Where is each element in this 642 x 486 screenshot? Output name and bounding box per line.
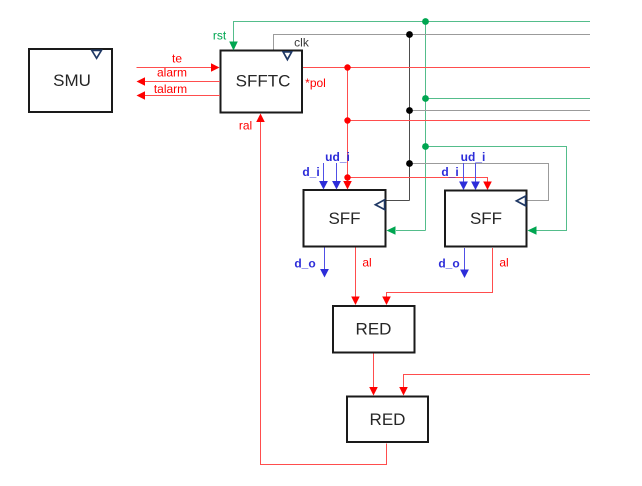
svg-text:SMU: SMU [53, 71, 91, 90]
wire d_i stub into SFF left [323, 163, 325, 182]
svg-text:d_o: d_o [438, 257, 459, 271]
wire ud_i stub into SFF right [475, 163, 477, 182]
block SMU [29, 49, 112, 112]
wire red stub row 2 [348, 120, 591, 122]
arrowhead into RED lower left [369, 387, 378, 396]
wire d_o stub out of SFF left [324, 248, 326, 270]
junction clk lower [406, 160, 413, 167]
arrowhead into RED lower right [399, 387, 408, 396]
wire clk: gray entry into SFFTC top [274, 35, 591, 50]
svg-text:alarm: alarm [157, 66, 187, 80]
junction green top [422, 18, 429, 25]
wire talarm: red out of SFFTC left [145, 95, 221, 97]
arrowhead ud_i right [471, 182, 480, 191]
junction red lower [344, 174, 350, 180]
junction clk top [406, 31, 413, 38]
wire al from SFF left into RED upper [355, 248, 357, 298]
svg-text:SFF: SFF [328, 209, 360, 228]
wire ral feedback from RED lower to SFFTC bottom [261, 121, 387, 465]
junction green middle [422, 95, 429, 102]
svg-text:talarm: talarm [154, 82, 187, 96]
arrowhead d_o right [460, 270, 469, 279]
clock-edge triangle on SFFTC [283, 52, 292, 60]
svg-text:*pol: *pol [305, 76, 326, 90]
arrowhead d_i left [319, 181, 328, 190]
wire green stub row 2 [426, 98, 591, 100]
wire rst vertical trunk (green) [425, 22, 427, 231]
arrowhead alarm [137, 77, 146, 86]
wire from right side into RED lower [404, 375, 591, 389]
wire *pol: red out of SFFTC right [303, 67, 590, 69]
arrowhead red into SFF left top [343, 181, 352, 190]
wire red branch to SFF right top [348, 178, 488, 183]
junction red top [344, 64, 350, 70]
wire green loop to right SFF [426, 147, 567, 231]
svg-text:RED: RED [370, 410, 406, 429]
arrowhead al right into RED [382, 297, 391, 306]
svg-text:ud_i: ud_i [461, 150, 486, 164]
clock-edge triangle on SFF left [375, 200, 384, 210]
arrowhead ral into SFFTC bottom [256, 114, 265, 123]
wire gray loop to right SFF clock pin [410, 164, 549, 201]
junction clk middle [406, 107, 413, 114]
arrowhead green into SFF left [387, 226, 396, 235]
svg-text:clk: clk [294, 36, 310, 50]
wire rst: green entry into SFFTC top [234, 22, 591, 50]
wire green into SFF left [396, 230, 426, 232]
svg-text:SFF: SFF [470, 209, 502, 228]
wire ud_i stub into SFF left [336, 163, 338, 182]
wire gray stub row 2 [410, 110, 591, 112]
svg-text:al: al [499, 256, 508, 270]
wire clk into SFF left clock pin [387, 200, 410, 202]
block SFF (right) [445, 191, 527, 247]
arrowhead al left into RED [351, 297, 360, 306]
arrowhead talarm [137, 91, 146, 100]
block SFF (left) [304, 190, 386, 247]
svg-text:rst: rst [213, 29, 227, 43]
svg-text:RED: RED [356, 320, 392, 339]
wire al from SFF right into RED upper [387, 248, 493, 298]
wire RED upper to RED lower [373, 354, 375, 389]
svg-text:ral: ral [239, 119, 252, 133]
svg-text:d_i: d_i [441, 165, 458, 179]
arrowhead ud_i left [332, 181, 341, 190]
block RED (upper) [333, 306, 415, 353]
clock-edge triangle on SMU [92, 50, 102, 58]
arrowhead te [211, 63, 220, 72]
wire clk vertical trunk (dark) [409, 35, 411, 201]
svg-text:SFFTC: SFFTC [236, 72, 291, 91]
arrowhead rst into SFFTC [229, 42, 238, 51]
wire alarm: red out of SFFTC left [145, 81, 221, 83]
arrowhead red into SFF right top [483, 182, 492, 191]
junction red middle [344, 117, 350, 123]
svg-text:d_i: d_i [302, 165, 319, 179]
arrowhead green into SFF right [528, 226, 537, 235]
svg-text:ud_i: ud_i [325, 150, 350, 164]
arrowhead d_o left [320, 269, 329, 278]
wire red vertical trunk into SFF left top [347, 68, 349, 183]
clock-edge triangle on SFF right [516, 196, 525, 206]
svg-text:d_o: d_o [294, 257, 315, 271]
block RED (lower) [347, 397, 428, 443]
wire d_o stub out of SFF right [464, 248, 466, 270]
svg-text:te: te [172, 52, 182, 66]
block SFFTC U1 [221, 51, 303, 113]
wire te: red into SFFTC left [137, 67, 213, 69]
junction green lower [422, 143, 429, 150]
svg-text:al: al [362, 256, 371, 270]
wire d_i stub into SFF right [463, 163, 465, 182]
arrowhead d_i right [459, 182, 468, 191]
